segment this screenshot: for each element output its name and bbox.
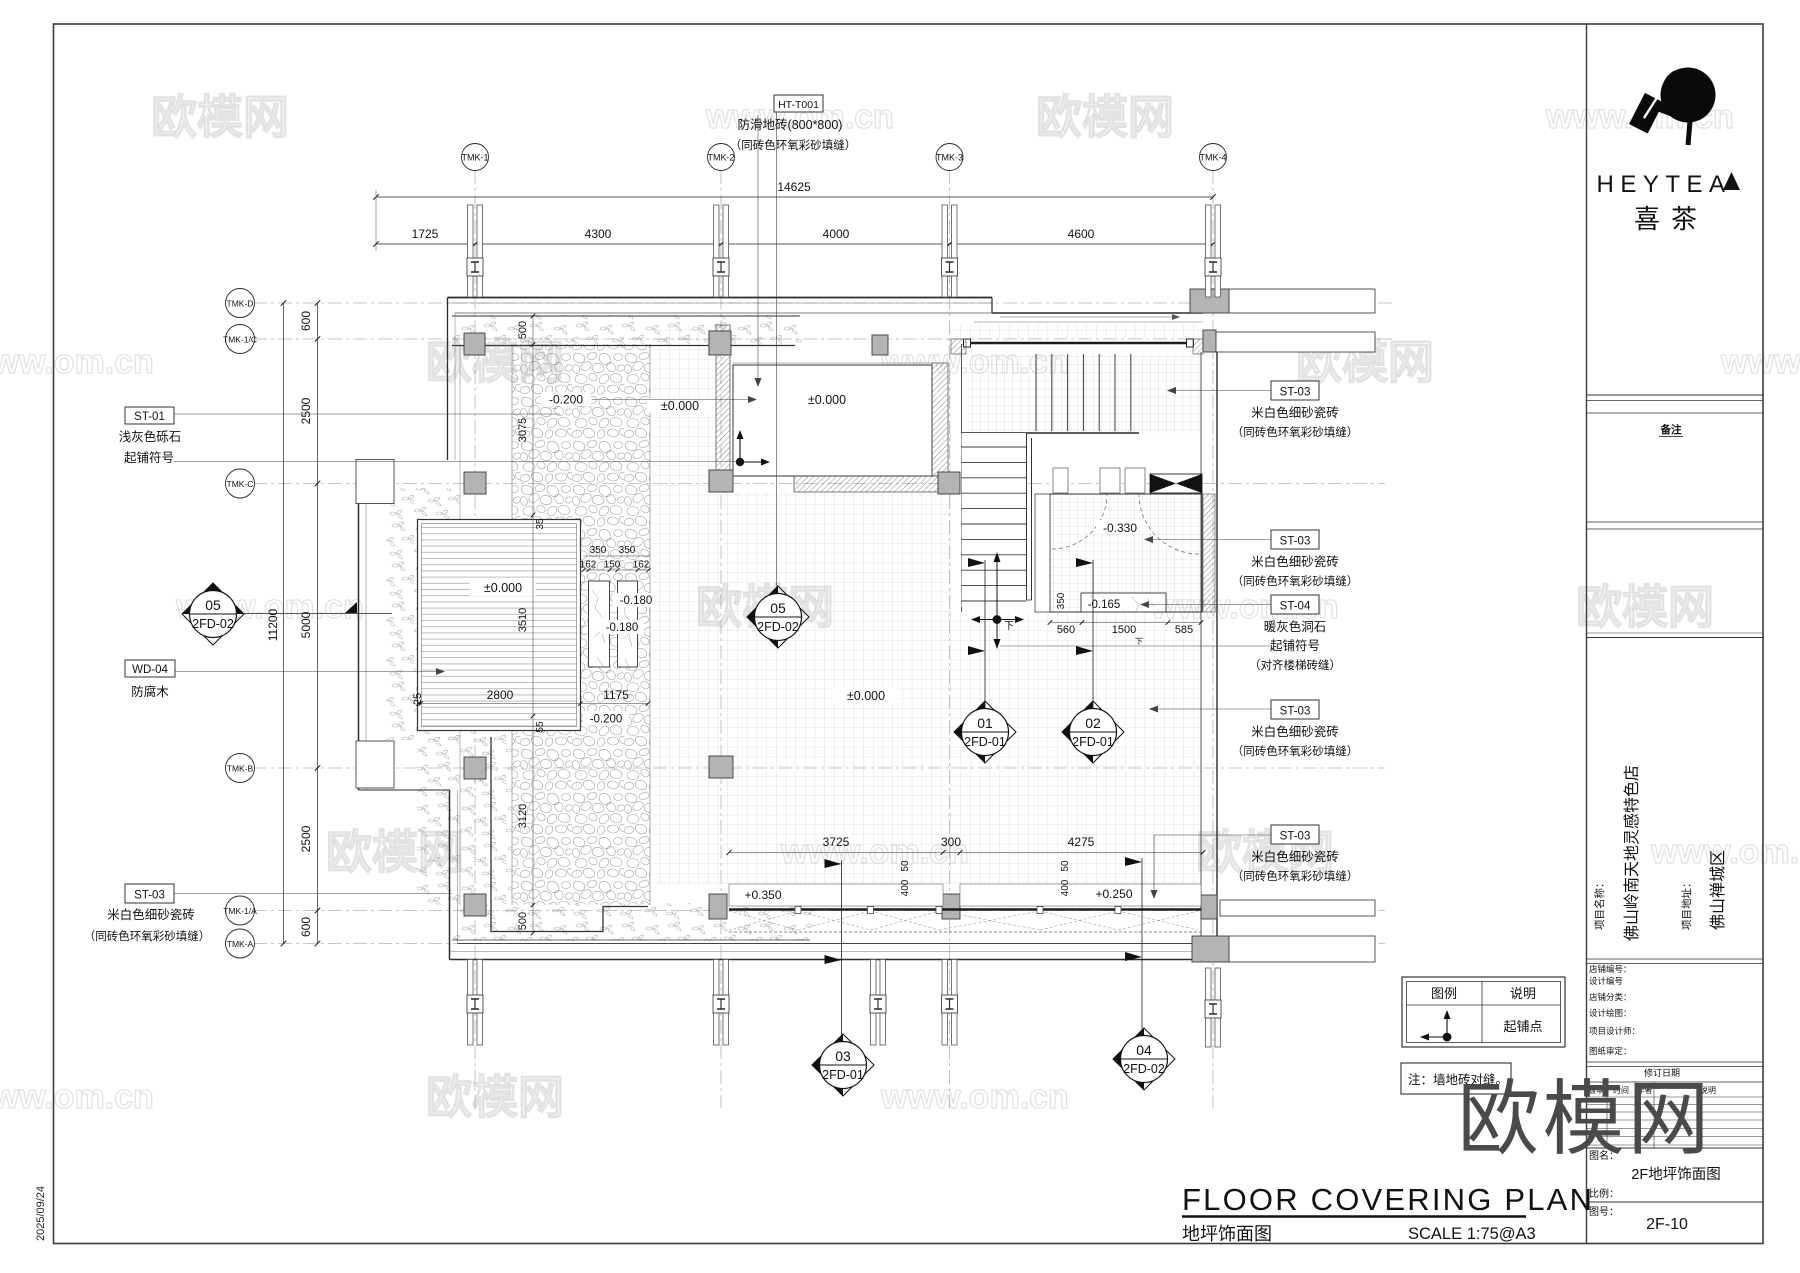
svg-text:4300: 4300 (585, 227, 612, 241)
HEYTEA logo (1629, 68, 1715, 146)
room A walls (733, 365, 932, 476)
building outer wall top (448, 297, 993, 299)
stair landing edge (962, 432, 1140, 434)
svg-text:3075: 3075 (517, 418, 529, 442)
room A right wall hatch (932, 363, 948, 476)
bathroom tile hatch (1050, 494, 1202, 612)
svg-text:-0.330: -0.330 (1103, 521, 1137, 535)
svg-text:5000: 5000 (299, 611, 313, 638)
svg-text:1725: 1725 (412, 227, 439, 241)
svg-text:162: 162 (580, 560, 597, 571)
svg-text:www.om.cn: www.om.cn (880, 1078, 1069, 1116)
svg-text:500: 500 (517, 912, 529, 930)
svg-text:±0.000: ±0.000 (661, 399, 699, 413)
legend start symbol (1446, 1014, 1448, 1037)
svg-text:佛山岭南天地灵感特色店: 佛山岭南天地灵感特色店 (1623, 765, 1641, 941)
note box (1401, 1063, 1511, 1094)
left dimension lines (283, 303, 285, 944)
svg-text:55: 55 (535, 721, 546, 733)
grid bubbles TMK-D..A (226, 289, 255, 318)
room A bottom wall hatch (794, 476, 938, 492)
svg-text:下: 下 (1004, 621, 1014, 632)
svg-text:米白色细砂瓷砖: 米白色细砂瓷砖 (1251, 405, 1339, 420)
svg-text:起铺点: 起铺点 (1503, 1019, 1542, 1034)
svg-text:4000: 4000 (823, 227, 850, 241)
svg-text:项目地址：: 项目地址： (1680, 878, 1693, 931)
stair handrail inner (1026, 433, 1028, 600)
svg-text:www.om.cn: www.om.cn (0, 343, 154, 381)
svg-text:（对齐楼梯砖缝）: （对齐楼梯砖缝） (1249, 658, 1341, 672)
svg-text:300: 300 (941, 835, 961, 849)
svg-text:说明: 说明 (1510, 986, 1536, 1001)
svg-text:2FD-02: 2FD-02 (1123, 1062, 1165, 1076)
planter border lines (452, 315, 800, 317)
svg-text:米白色细砂瓷砖: 米白色细砂瓷砖 (1251, 554, 1339, 569)
bathroom level (1096, 520, 1144, 534)
svg-text:50: 50 (1060, 860, 1071, 872)
svg-text:防滑地砖(800*800): 防滑地砖(800*800) (738, 117, 843, 132)
bay tabs at TMK-C / TMK-B (356, 460, 394, 504)
svg-text:150: 150 (604, 560, 621, 571)
label ST-04 (1271, 595, 1319, 614)
svg-text:项目名称：: 项目名称： (1593, 878, 1606, 931)
svg-text:地坪饰面图: 地坪饰面图 (1182, 1224, 1272, 1244)
svg-text:05: 05 (205, 597, 221, 613)
svg-text:欧模网: 欧模网 (1457, 1074, 1712, 1165)
svg-text:项目设计师：: 项目设计师： (1589, 1026, 1640, 1036)
wood deck WD-04 (418, 520, 581, 731)
svg-text:（同砖色环氧彩砂填缝）: （同砖色环氧彩砂填缝） (1232, 744, 1359, 758)
label ST-01 (125, 407, 174, 424)
legend box (1402, 977, 1565, 1047)
svg-text:TMK-D: TMK-D (227, 299, 254, 309)
svg-text:（同砖色环氧彩砂填缝）: （同砖色环氧彩砂填缝） (1232, 574, 1359, 588)
sill levels (735, 886, 791, 902)
stair lower flight treads (962, 433, 1027, 607)
label ST-03 (left) (125, 884, 174, 903)
svg-text:暖灰色洞石: 暖灰色洞石 (1264, 619, 1327, 634)
planter bay left wall (358, 460, 360, 791)
svg-text:162: 162 (633, 560, 650, 571)
svg-text:05: 05 (770, 600, 786, 616)
svg-text:-0.200: -0.200 (590, 714, 623, 726)
svg-text:ST-03: ST-03 (1280, 536, 1311, 548)
travertine threshold slab ST-04 (1081, 593, 1166, 612)
svg-text:500: 500 (517, 321, 529, 339)
svg-text:TMK-1: TMK-1 (462, 153, 489, 163)
svg-text:佛山禅城区: 佛山禅城区 (1709, 850, 1727, 930)
building right wall (1200, 352, 1202, 944)
building left wall lower (449, 790, 451, 960)
svg-text:（同砖色环氧彩砂填缝）: （同砖色环氧彩砂填缝） (1232, 869, 1359, 883)
svg-text:SCALE 1:75@A3: SCALE 1:75@A3 (1408, 1225, 1536, 1243)
svg-text:HEYTEA: HEYTEA (1596, 171, 1731, 198)
bathroom walls (1050, 494, 1202, 612)
svg-text:米白色细砂瓷砖: 米白色细砂瓷砖 (107, 907, 195, 922)
svg-text:25: 25 (412, 693, 424, 705)
svg-text:店铺编号：: 店铺编号： (1589, 964, 1632, 974)
detail marker 04/2FD-02 (1113, 1028, 1175, 1090)
svg-text:600: 600 (299, 311, 313, 331)
sill dims 3725/300/4275 (729, 852, 1203, 854)
stair upper flight treads (1035, 354, 1037, 431)
svg-text:TMK-2: TMK-2 (708, 153, 735, 163)
svg-text:±0.000: ±0.000 (484, 581, 522, 595)
svg-text:www.om.cn: www.om.cn (0, 1078, 154, 1116)
svg-text:欧模网: 欧模网 (1036, 91, 1174, 143)
svg-text:3725: 3725 (823, 835, 850, 849)
label ST-03 (1271, 700, 1319, 719)
svg-text:2FD-02: 2FD-02 (192, 617, 234, 631)
svg-text:01: 01 (977, 715, 993, 731)
stair handrail top line (968, 342, 1190, 345)
stair left wall (961, 344, 963, 612)
bathroom dims 560/1500/585 (1050, 622, 1202, 624)
svg-text:图例: 图例 (1431, 986, 1457, 1001)
svg-text:+0.350: +0.350 (744, 888, 781, 902)
svg-text:图纸审定：: 图纸审定： (1589, 1046, 1632, 1056)
svg-text:-0.180: -0.180 (606, 622, 639, 634)
svg-text:3510: 3510 (517, 608, 529, 632)
svg-text:欧模网: 欧模网 (426, 1071, 564, 1123)
svg-text:ST-03: ST-03 (134, 890, 165, 902)
title block section lines (1587, 394, 1764, 396)
svg-text:1500: 1500 (1112, 624, 1136, 636)
svg-text:2FD-02: 2FD-02 (757, 620, 799, 634)
deck bottom dims 25/2800/1175 (417, 703, 648, 705)
svg-text:ST-01: ST-01 (134, 411, 165, 423)
deck small dims 350/350 162/150/162 (583, 555, 650, 557)
svg-text:TMK-1/A: TMK-1/A (223, 906, 257, 916)
svg-text:米白色细砂瓷砖: 米白色细砂瓷砖 (1251, 849, 1339, 864)
window sill band (729, 884, 943, 906)
svg-text:3120: 3120 (517, 804, 529, 828)
svg-text:2500: 2500 (299, 825, 313, 852)
stone slabs beside deck (589, 581, 610, 667)
svg-text:设计绘图：: 设计绘图： (1589, 1008, 1632, 1018)
svg-text:585: 585 (1175, 624, 1193, 636)
svg-text:备注: 备注 (1660, 423, 1683, 436)
bathroom fixtures (1053, 468, 1068, 493)
top dimension line 14625 (376, 196, 1213, 198)
deck side dims (532, 316, 534, 933)
corridor rectangles top right (1229, 289, 1375, 313)
column grid center lines (474, 170, 476, 1108)
corridor rectangles bottom right (1220, 900, 1375, 916)
bathroom door swings (1052, 494, 1107, 549)
svg-text:±0.000: ±0.000 (808, 393, 846, 407)
svg-text:设计编号: 设计编号 (1589, 976, 1623, 986)
svg-text:-0.165: -0.165 (1088, 599, 1121, 611)
svg-text:比例：: 比例： (1589, 1187, 1619, 1200)
room A level (794, 392, 860, 407)
detail marker 03/2FD-01 (812, 1034, 874, 1096)
room A left wall hatch (716, 325, 730, 492)
svg-text:FLOOR COVERING PLAN: FLOOR COVERING PLAN (1182, 1182, 1594, 1217)
label ST-03 (1271, 530, 1319, 549)
building left wall upper (447, 298, 449, 461)
svg-text:2FD-01: 2FD-01 (964, 735, 1006, 749)
svg-text:400: 400 (1060, 879, 1071, 896)
detail marker 02/2FD-01 (1062, 701, 1124, 763)
svg-text:1175: 1175 (603, 688, 629, 702)
svg-text:50: 50 (900, 860, 911, 872)
svg-text:±0.000: ±0.000 (847, 689, 885, 703)
svg-text:2025/09/24: 2025/09/24 (35, 1186, 47, 1241)
gravel (pebble) strip ST-01 (512, 344, 650, 905)
svg-text:店铺分类：: 店铺分类： (1589, 992, 1632, 1002)
top dimension line segments 1725/4300/4000/4600 (376, 243, 1213, 245)
svg-text:TMK-C: TMK-C (227, 479, 254, 489)
svg-text:-0.200: -0.200 (549, 393, 583, 407)
svg-text:350: 350 (619, 545, 636, 556)
svg-text:400: 400 (900, 879, 911, 896)
window mullions on grid lines (468, 205, 474, 297)
svg-text:-0.180: -0.180 (620, 595, 653, 607)
svg-text:ST-04: ST-04 (1280, 601, 1311, 613)
planter green bands (leaf texture) (452, 315, 802, 346)
svg-text:防腐木: 防腐木 (131, 684, 169, 699)
svg-text:+0.250: +0.250 (1095, 887, 1132, 901)
svg-text:04: 04 (1136, 1042, 1152, 1058)
direction arrow in top band (1000, 316, 1180, 318)
svg-text:600: 600 (299, 917, 313, 937)
svg-text:www.om.cn: www.om.cn (1720, 343, 1800, 381)
label ST-03 (1271, 825, 1319, 844)
svg-text:喜茶: 喜茶 (1634, 204, 1708, 234)
svg-text:560: 560 (1057, 624, 1075, 636)
stair area tile hatch (966, 354, 1201, 433)
svg-text:浅灰色砾石: 浅灰色砾石 (119, 429, 182, 444)
detail marker 05/2FD-02 (182, 583, 244, 645)
title block divider (1586, 24, 1588, 1244)
svg-text:ST-03: ST-03 (1280, 831, 1311, 843)
svg-text:欧模网: 欧模网 (151, 91, 289, 143)
svg-text:WD-04: WD-04 (132, 664, 168, 676)
svg-text:（同砖色环氧彩砂填缝）: （同砖色环氧彩砂填缝） (1232, 425, 1359, 439)
stair down arrow (996, 556, 998, 620)
svg-text:图号：: 图号： (1589, 1206, 1619, 1218)
svg-text:TMK-B: TMK-B (227, 764, 254, 774)
svg-text:TMK-1/C: TMK-1/C (223, 335, 257, 345)
svg-text:35: 35 (535, 518, 546, 530)
svg-text:起铺符号: 起铺符号 (1270, 638, 1320, 653)
svg-text:ST-03: ST-03 (1280, 706, 1311, 718)
leader for -0.200 gravel (592, 399, 752, 401)
svg-text:03: 03 (835, 1048, 851, 1064)
svg-text:欧模网: 欧模网 (1576, 581, 1714, 633)
svg-text:（同砖色环氧彩砂填缝）: （同砖色环氧彩砂填缝） (730, 138, 857, 152)
svg-text:下: 下 (1135, 637, 1143, 646)
svg-text:TMK-A: TMK-A (227, 939, 254, 949)
svg-text:2800: 2800 (487, 688, 514, 702)
label HT-T001 (774, 95, 823, 112)
svg-text:02: 02 (1085, 715, 1101, 731)
svg-text:ST-03: ST-03 (1280, 387, 1311, 399)
shaft bowtie symbol (1150, 474, 1202, 493)
svg-text:米白色细砂瓷砖: 米白色细砂瓷砖 (1251, 724, 1339, 739)
svg-text:起铺符号: 起铺符号 (124, 450, 174, 465)
detail marker 01/2FD-01 (954, 701, 1016, 763)
svg-text:（同砖色环氧彩砂填缝）: （同砖色环氧彩砂填缝） (84, 929, 211, 943)
grid bubbles TMK-1..4 (462, 144, 489, 171)
label ST-03 (1271, 381, 1319, 400)
svg-text:TMK-3: TMK-3 (936, 153, 963, 163)
start point symbol in room A (739, 434, 741, 462)
svg-text:2F-10: 2F-10 (1646, 1216, 1688, 1233)
svg-text:TMK-4: TMK-4 (1200, 153, 1227, 163)
label WD-04 (125, 660, 175, 677)
svg-text:4600: 4600 (1068, 227, 1095, 241)
svg-text:2FD-01: 2FD-01 (822, 1068, 864, 1082)
main floor ceramic tile hatch region (652, 325, 1201, 884)
building bottom wall (450, 959, 1231, 961)
structural columns (464, 333, 485, 355)
svg-text:14625: 14625 (777, 180, 811, 194)
svg-text:2F地坪饰面图: 2F地坪饰面图 (1631, 1166, 1720, 1183)
svg-text:2FD-01: 2FD-01 (1072, 735, 1114, 749)
svg-text:HT-T001: HT-T001 (778, 99, 819, 111)
detail marker 05/2FD-02 (747, 586, 809, 648)
svg-text:350: 350 (1056, 592, 1067, 609)
svg-text:350: 350 (590, 545, 607, 556)
svg-text:2500: 2500 (299, 397, 313, 424)
svg-text:4275: 4275 (1068, 835, 1095, 849)
